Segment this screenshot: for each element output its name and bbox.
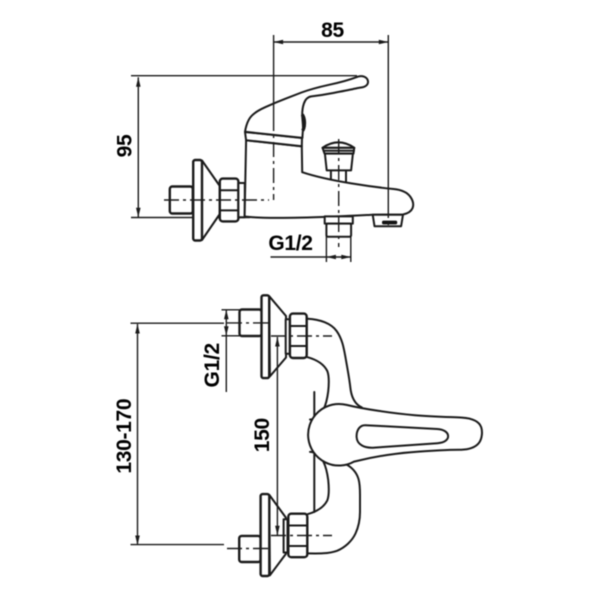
- svg-text:G1/2: G1/2: [268, 232, 312, 255]
- svg-text:G1/2: G1/2: [201, 343, 224, 387]
- svg-text:150: 150: [251, 418, 274, 452]
- svg-text:95: 95: [114, 134, 137, 157]
- svg-text:130-170: 130-170: [113, 399, 136, 474]
- svg-text:85: 85: [321, 19, 344, 42]
